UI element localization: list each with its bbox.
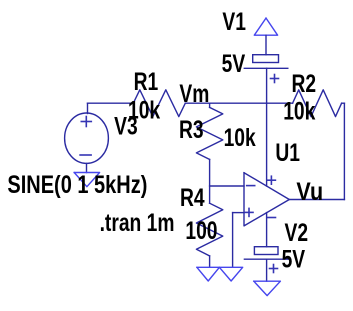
svg-text:Vu: Vu xyxy=(296,178,323,206)
svg-text:Vm: Vm xyxy=(179,80,209,108)
svg-text:5V: 5V xyxy=(222,49,246,77)
svg-text:U1: U1 xyxy=(275,139,300,167)
svg-text:5V: 5V xyxy=(282,245,306,273)
svg-text:V3: V3 xyxy=(114,112,138,140)
svg-text:SINE(0 1 5kHz): SINE(0 1 5kHz) xyxy=(7,171,147,199)
svg-text:100: 100 xyxy=(185,216,217,244)
svg-text:V2: V2 xyxy=(285,219,309,247)
svg-text:10k: 10k xyxy=(283,97,316,125)
svg-text:.tran 1m: .tran 1m xyxy=(100,209,175,237)
svg-text:R2: R2 xyxy=(292,70,317,98)
svg-text:R3: R3 xyxy=(179,116,204,144)
svg-text:10k: 10k xyxy=(224,123,257,151)
svg-text:R1: R1 xyxy=(134,67,159,95)
svg-text:V1: V1 xyxy=(222,8,246,36)
svg-text:R4: R4 xyxy=(180,183,205,211)
